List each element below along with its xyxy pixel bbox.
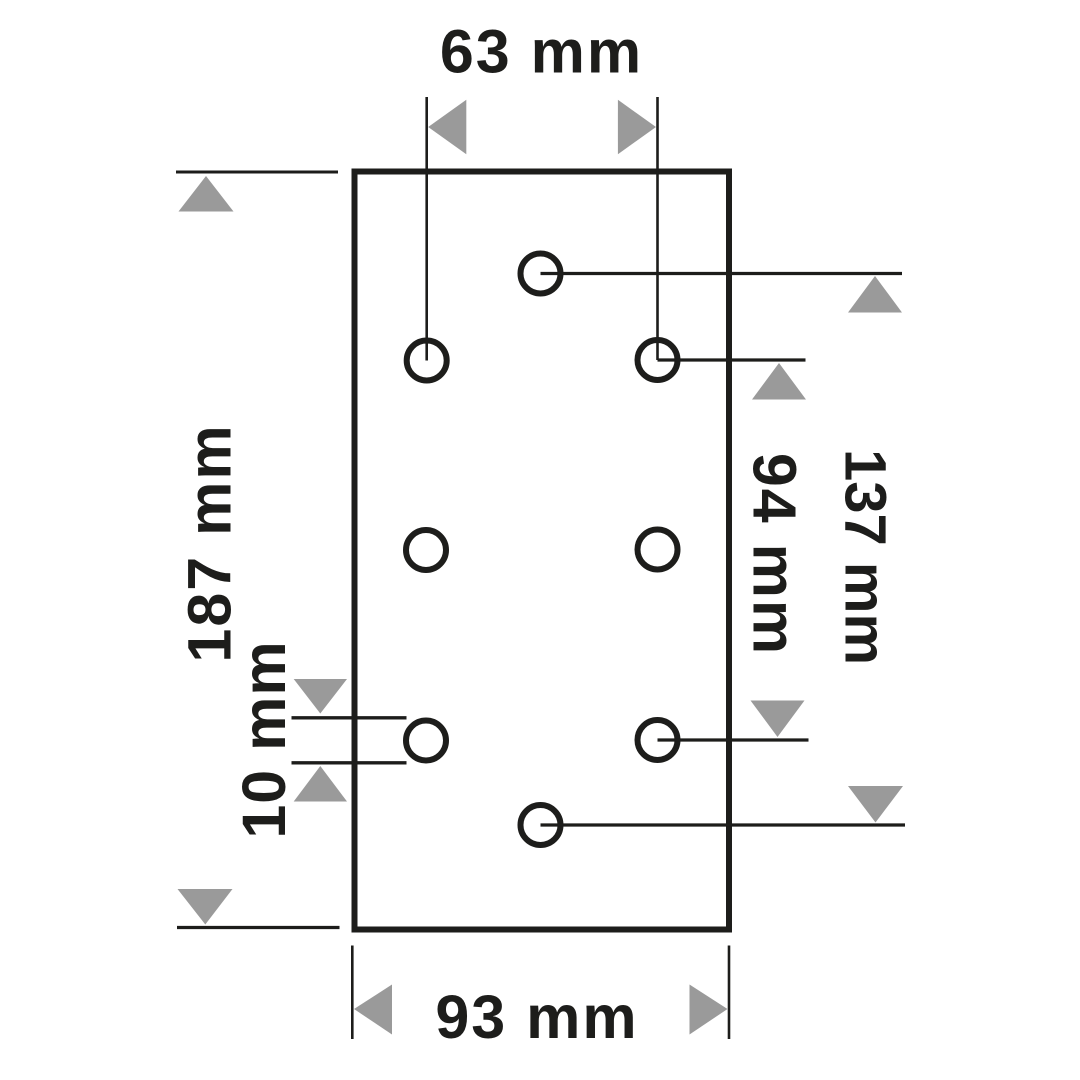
187mm top arrow [179, 176, 234, 212]
dim 63mm right arrow [618, 100, 656, 154]
svg-text:94 mm: 94 mm [741, 453, 809, 656]
10mm lower arrow (up) [294, 766, 347, 802]
leader line from H1 (137mm top) [541, 272, 903, 275]
hole H3 top-right [638, 340, 678, 380]
svg-text:187 mm: 187 mm [176, 423, 244, 662]
hole H6 low-left [406, 721, 446, 761]
10mm upper arrow (down) [294, 679, 347, 714]
137mm top arrow [848, 276, 902, 313]
dim 93mm left extension line [351, 946, 354, 1040]
plate outline [355, 172, 730, 930]
dim 187mm bottom extension line [177, 926, 340, 929]
137mm bottom arrow [848, 786, 903, 823]
dim 10mm lower line [292, 761, 407, 764]
hole H7 low-right [638, 720, 678, 760]
dim 187mm top extension line [176, 171, 338, 174]
hole H4 mid-left [406, 530, 446, 570]
dim 93mm left arrow [354, 985, 392, 1035]
dim 63mm left arrow [428, 100, 466, 154]
svg-text:137 mm: 137 mm [833, 449, 898, 665]
dim 63mm right extension line [656, 97, 659, 360]
187mm bottom arrow [178, 889, 233, 925]
94mm top arrow [752, 363, 806, 400]
94mm bottom arrow [751, 701, 805, 738]
dim 63mm left extension line [425, 97, 428, 361]
svg-text:93 mm: 93 mm [435, 983, 638, 1051]
leader line from H7 (94mm bottom) [658, 738, 809, 741]
leader line from H3 (94mm top) [658, 358, 806, 361]
hole H1 top-center [521, 254, 561, 294]
dim 10mm upper line [292, 716, 407, 719]
dim 93mm right arrow [690, 985, 728, 1035]
leader line from H8 (137mm bottom) [541, 823, 906, 826]
svg-text:10 mm: 10 mm [230, 640, 298, 838]
hole H2 top-left [407, 341, 447, 381]
hole H8 bottom-center [521, 805, 561, 845]
svg-text:63 mm: 63 mm [440, 18, 643, 86]
dim 93mm right extension line [728, 946, 731, 1040]
hole H5 mid-right [638, 530, 678, 570]
